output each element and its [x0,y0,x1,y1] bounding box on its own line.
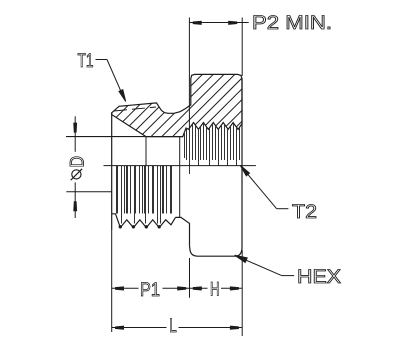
svg-text:L: L [169,315,177,337]
dimension L: line with arrows [112,327,167,329]
dimension P2 MIN.: right extension line [241,18,243,77]
svg-text:HEX: HEX [297,266,341,288]
right face edge [241,79,243,248]
dimension P2 MIN.: dimension line with arrows [189,22,248,24]
svg-text:D: D [67,156,89,168]
leader T2 with arrow [240,165,276,208]
svg-text:P2 MIN.: P2 MIN. [252,12,332,34]
hex bottom edge (external) [197,255,237,257]
bore line / ⌀D top extension [66,136,183,138]
female thread end vertical [179,137,181,218]
dimension L: right extension line [241,250,243,336]
svg-text:H: H [210,279,220,301]
neck silhouette and hex front chamfer (external) [176,217,190,245]
dimension ⌀D: bottom extension line [66,191,111,193]
male thread flank lines (external, below centerline) [117,166,172,224]
svg-text:T2: T2 [292,201,317,223]
thread runout vertical (male) [145,137,147,166]
male thread silhouette (zigzag roots, external view) [112,214,176,228]
dashed pitch line on male thread [114,107,156,111]
hatch lines 45deg [52,55,330,160]
dimension P1/H: middle extension line at hex face [189,258,191,298]
female thread flank lines (section, above centerline) [185,124,240,175]
dimension P2 MIN.: extension line at thread depth plane [188,18,190,130]
left face edge + P1/L extension line [111,113,113,230]
dimension ⌀D: dimension line (outside arrows) [74,116,76,152]
centerline [104,165,256,167]
svg-text:P1: P1 [140,279,160,301]
leader HEX with arrow [235,255,282,275]
leader T1 with arrow [96,59,108,61]
svg-text:T1: T1 [78,50,94,72]
dimension P1: line with arrows [112,287,139,289]
dimension H: line with arrows [190,287,208,289]
hex rear chamfer arc [237,248,243,257]
